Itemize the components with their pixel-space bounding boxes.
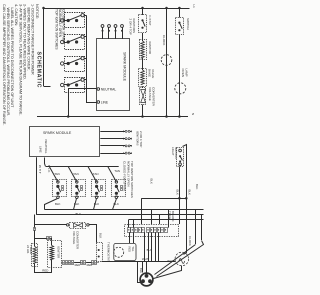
svg-text:IGNITORS: IGNITORS [132,19,136,33]
wire left bus stub [44,86,51,88]
svg-text:BLK: BLK [195,184,199,190]
wire drop 1 to board [141,198,143,224]
voltage converter (schematic) [140,88,146,105]
svg-text:BLK: BLK [55,202,61,206]
ignition switch S4 (schematic) [65,78,85,93]
wire drop to terminal board [133,220,135,228]
node L1-lightswitch branch [178,7,181,10]
wire bake valve to voltage converter [142,86,144,88]
wire drop to WHT run [155,232,157,261]
spark module top terminal [122,28,124,40]
wire N bus [37,116,188,118]
wire feed to switch 1 [49,167,58,182]
svg-text:SWITCH: SWITCH [174,147,178,158]
svg-text:BLK: BLK [147,248,153,252]
svg-text:BLK: BLK [149,179,153,185]
wire to power cord a [155,245,196,275]
svg-text:TOP IGNITION SWITCHES: TOP IGNITION SWITCHES [54,9,58,50]
svg-text:IGNITORS: IGNITORS [135,131,139,145]
wire right v3 [201,215,203,240]
svg-text:TAN: TAN [93,172,99,176]
inline connector [69,261,71,265]
wire ignitor to bake valve [142,58,144,70]
node h1-clockwire [185,197,188,200]
wire converter to thermostat contacts [90,225,97,243]
wire WHT module lead [36,157,38,214]
svg-text:F-STAT: F-STAT [148,16,152,26]
svg-text:RED: RED [42,269,48,273]
wire switch bus to LINE [87,16,97,103]
wire TAN loom [46,166,119,168]
ignition switch 2 (wiring diagram) [72,180,86,197]
spark module ignitor lead 3 [100,145,125,147]
svg-text:WHT: WHT [167,259,174,263]
wire board drop d [144,232,146,261]
svg-text:LAMP: LAMP [184,69,188,77]
svg-text:NEUTRAL: NEUTRAL [44,140,48,154]
svg-text:BLK: BLK [98,233,102,238]
wire switch 4 lower leads [113,199,117,210]
wire light switch lower lead [179,167,181,225]
svg-text:RED: RED [87,263,93,267]
wire feed to switch 3 [88,167,97,182]
spark module ignitor lead 4 [100,153,125,155]
svg-text:TIMER: TIMER [29,245,33,254]
inline connector [81,261,83,265]
ignition switch S2 (schematic) [65,35,85,50]
timer connector [34,228,36,231]
svg-text:TAN: TAN [54,172,60,176]
wire switch 2 lower leads [74,199,77,210]
svg-text:CONVERTER: CONVERTER [76,231,80,249]
wire drop to WHT run [148,232,150,261]
svg-text:SPARK MODULE: SPARK MODULE [43,131,72,135]
power cord plug [140,273,153,286]
wire connector to thermostat contact [98,262,99,264]
wire voltage converter to N bus [142,105,144,117]
terminal LINE [97,101,100,104]
node h1-lightswitch [178,197,181,200]
svg-text:SPARK MODULE: SPARK MODULE [122,52,126,82]
wire feed to switch 2 [68,167,77,182]
spark module U1 (schematic) [97,39,130,111]
wire feed to switch 4 [108,167,117,182]
wire to power cord left [138,262,141,283]
svg-text:IGNITOR: IGNITOR [57,246,61,258]
svg-text:CAN CAUSE IMPROPER AND DANGERO: CAN CAUSE IMPROPER AND DANGEROUS OPERATI… [2,4,6,125]
wire loom h1 [142,198,187,200]
ignition switch 1 (wiring diagram) [53,180,67,197]
thermostat contact box [97,243,103,262]
svg-text:CLOSED FOR SPARK: CLOSED FOR SPARK [123,161,127,191]
spark module ignitor lead 2 [100,138,125,140]
wire switch 3 lower leads [94,199,97,210]
svg-text:TOP IGNITION SWITCHES: TOP IGNITION SWITCHES [130,161,134,198]
svg-text:BLK: BLK [176,190,180,196]
wire to power cord b [157,241,204,277]
svg-text:CLOCK: CLOCK [162,35,166,45]
wire left bus [43,8,45,86]
ignition switch 3 (wiring diagram) [92,180,106,197]
spark module (wiring diagram) [30,127,100,157]
svg-text:WHT: WHT [142,257,149,261]
wire F-STAT to ignitor [142,33,144,41]
svg-text:THERMOSTAT: THERMOSTAT [106,242,110,262]
wire converter left lead [35,224,67,226]
wire BLK module lead [45,158,46,167]
svg-text:CONVERTER: CONVERTER [151,87,155,107]
wire lamp to power cord [154,266,182,279]
bake valve coil [139,69,147,87]
spark module top terminal [108,28,110,40]
wire switch through oven lamp to N bus [179,35,181,117]
wire L1 to clock to N bus [166,8,168,117]
wire L1 to light switch [179,8,181,18]
svg-text:NORMALLY OPEN: NORMALLY OPEN [58,9,62,38]
oven light switch (schematic) [176,18,184,35]
svg-text:TAN: TAN [114,169,120,173]
node neutral-N junction [67,115,70,118]
svg-text:N: N [191,113,195,115]
svg-text:NORMALLY OPEN: NORMALLY OPEN [126,161,130,187]
wire drop to terminal board [168,209,170,227]
wire right v2 [195,209,197,244]
svg-text:BAKE: BAKE [147,69,151,77]
node L1 left corner [42,7,45,10]
inline connector [92,261,94,265]
thermostat (wiring diagram) [114,243,136,260]
ignition switch S1 (schematic) [65,13,85,28]
terminal board TB1 [125,225,179,237]
wire plug feed a [142,262,144,273]
node L1-clock branch [165,7,168,10]
svg-text:RED: RED [75,263,81,267]
wire drop to terminal board [128,220,130,228]
wire light switch upper lead to lamp [183,145,187,255]
svg-text:LINE: LINE [38,146,42,153]
wire plug feed b [146,262,148,273]
wire drop to WHT run [151,232,153,261]
svg-text:BOARD: BOARD [171,211,175,221]
clock motor M1 [161,55,172,66]
svg-text:L1: L1 [192,5,196,9]
svg-text:SWITCH: SWITCH [186,18,190,30]
ignition switch S3 (schematic) [65,57,85,72]
svg-text:NEUTRAL: NEUTRAL [101,87,117,91]
node L1-bake branch [141,7,144,10]
wire WHT run to oven lamp [102,261,176,263]
svg-text:IGNITOR: IGNITOR [148,42,152,55]
svg-text:2 OR 4 TOP: 2 OR 4 TOP [129,19,133,35]
wire L1 to F-STAT [142,8,144,15]
svg-text:2 OR 4 TOP: 2 OR 4 TOP [139,131,143,147]
oven ignitor (wiring diagram) [48,241,62,268]
svg-text:BLK: BLK [187,190,191,196]
ignition switch 4 (wiring diagram) [112,180,126,197]
connector row [61,262,64,264]
wire loom h4 [129,219,204,221]
wire BLK bus [45,209,204,211]
oven light switch (wiring diagram) [177,148,184,167]
terminal NEUTRAL [97,88,100,91]
ignitor coil (bake) [140,40,147,60]
oven lamp (schematic) [175,83,186,94]
wire to timer connector [34,215,36,228]
svg-text:YEL: YEL [131,247,135,252]
voltage converter (wiring diagram) [70,223,86,229]
svg-text:RED: RED [127,247,131,253]
wire RED to thermostat [129,232,131,243]
wire switch 1 lower leads [45,199,58,210]
wire drop 2 to board [151,209,153,224]
inline connector [63,261,65,265]
wire loom h2 [36,214,203,216]
spark module top terminal [102,28,104,40]
svg-text:CLOCK: CLOCK [188,236,192,246]
wire ignitor feed to timer leg [35,238,47,240]
svg-text:WHT: WHT [38,165,42,174]
svg-text:VOLTAGE: VOLTAGE [72,231,76,244]
wire timer to RED lead [35,264,52,273]
svg-text:VALVE: VALVE [151,69,155,78]
ignitor feed connector [51,239,52,241]
svg-text:TAN: TAN [73,172,79,176]
oven lamp (wiring diagram) [175,252,189,266]
svg-text:SCHEMATIC: SCHEMATIC [36,52,42,89]
spark module top terminal [115,28,117,40]
F-STAT switch [139,15,147,33]
spark module ignitor lead 1 [100,131,125,133]
wire NEUTRAL to N bus [69,89,97,117]
wire YEL to thermostat [133,232,135,243]
svg-text:OVEN: OVEN [181,69,185,78]
wire board drop e [158,232,160,261]
wire L1 bus [44,8,190,10]
svg-text:VOLTAGE: VOLTAGE [148,87,152,101]
wire drop 3 to board [159,215,161,224]
svg-text:LINE: LINE [101,100,109,104]
